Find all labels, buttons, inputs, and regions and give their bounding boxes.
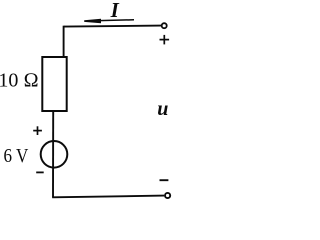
plus polarity of source	[33, 126, 42, 135]
svg-text:I: I	[110, 0, 120, 22]
svg-text:u: u	[157, 98, 168, 120]
terminal top-right (open circle)	[162, 23, 167, 28]
wire top horizontal	[64, 26, 162, 27]
wire top-left vertical (node to resistor)	[63, 26, 65, 57]
plus polarity at top terminal	[160, 35, 170, 45]
terminal bottom-right (open circle)	[165, 193, 170, 198]
minus polarity at bottom terminal	[160, 179, 169, 181]
svg-text:10 Ω: 10 Ω	[0, 70, 39, 92]
wire resistor bottom through source	[52, 112, 54, 198]
minus polarity of source	[36, 171, 44, 173]
current arrow I (shaft)	[99, 19, 134, 22]
current arrow I (head)	[84, 19, 101, 23]
wire bottom horizontal	[52, 196, 164, 198]
resistor R 10 ohm (rectangle body)	[42, 57, 66, 111]
svg-text:6 V: 6 V	[4, 145, 29, 167]
voltage source circle 6 V	[41, 141, 68, 168]
